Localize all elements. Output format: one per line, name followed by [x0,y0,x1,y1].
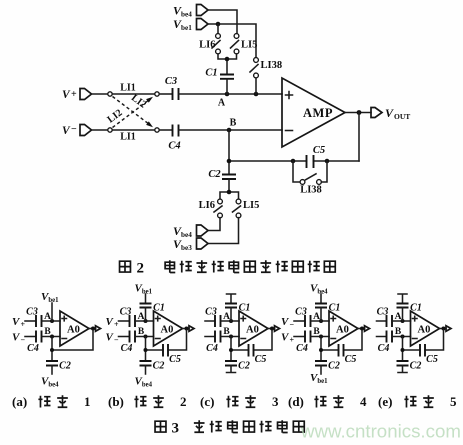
op-amp AMP [282,78,345,147]
svg-text:LI38: LI38 [300,185,322,196]
caption: fig 2 title [120,260,336,276]
wire LI6/LI5 merge to C1 [218,54,237,74]
junction feedback state4 [319,348,323,352]
node B [227,118,237,133]
input V+ state2 [106,316,130,329]
wire output state2 [183,328,190,330]
svg-text:C5: C5 [255,354,267,365]
capacitor C5 state5 [420,344,438,365]
svg-text:C5: C5 [169,354,181,365]
capacitor C5 state4 [339,344,357,365]
wire LI5 to Vbe3 buffer [209,218,239,244]
caption: state labels [12,394,457,409]
wire B down state1 [51,337,53,362]
capacitor C3 state3 [205,307,220,328]
svg-text:B: B [313,327,320,337]
svg-text:C2: C2 [208,169,221,180]
capacitor C1 state5 [397,303,422,314]
wire top to A state1 [51,303,53,321]
svg-text:AMP: AMP [303,106,333,120]
wire feedback vertical from output [358,113,360,162]
svg-text:A: A [138,312,145,322]
svg-text:C2: C2 [328,361,340,372]
svg-text:LI5: LI5 [243,200,259,211]
svg-text:LI6: LI6 [199,40,215,51]
svg-text:C3: C3 [120,307,132,318]
capacitor C4 state4 [296,331,310,355]
junction left of C5 [291,159,296,164]
capacitor C1 [205,68,234,79]
svg-text:OUT: OUT [394,112,410,121]
wire B row state1 [42,336,60,338]
wire C2 bottom state2 [145,366,147,375]
junction above C1 [225,57,230,62]
svg-text:LI38: LI38 [261,60,283,71]
capacitor C3 state5 [377,307,392,328]
switch LI5 (top) [231,34,258,54]
node A [218,92,229,109]
capacitor C1 state2 [140,303,165,314]
wire A row state2 [136,320,154,322]
capacitor C4 state2 [121,331,135,355]
svg-text:A0: A0 [246,325,259,336]
wire A row state3 [221,320,239,322]
svg-text:(b): (b) [108,394,124,409]
op-amp A0 state5 [411,311,440,346]
junction LI38 on A line [254,92,259,97]
node A state4 [313,312,323,323]
junction feedback state2 [144,348,148,352]
svg-text:C5: C5 [345,354,357,365]
svg-text:(e): (e) [378,394,392,409]
wire down to LI38 bottom switch [293,161,300,182]
wire feedback state2 [146,330,187,350]
wire AMP output [345,112,371,114]
node output state4 [360,327,364,331]
wire top state2 [145,294,147,304]
svg-text:A: A [313,312,320,322]
wire into C3 [159,93,172,95]
wire node B down to C2 [228,130,230,174]
node A state2 [138,312,148,323]
capacitor C3 state4 [295,307,310,328]
wire node B line [179,129,282,131]
wire C2 bottom state4 [320,366,322,375]
junction below C2 [227,190,232,195]
svg-text:B: B [138,327,145,337]
svg-text:(d): (d) [288,394,304,409]
node B state5 [395,327,405,339]
input V+ state4 [281,332,305,345]
svg-text:A0: A0 [161,325,174,336]
wire LI6 to Vbe4 buffer [209,218,221,231]
svg-text:V: V [385,106,394,120]
wire C1 to A state3 [230,308,232,322]
wire V+ buffer to switch [92,93,108,95]
svg-text:LI5: LI5 [241,40,257,51]
capacitor C4 state1 [27,331,41,355]
output terminal state5 [446,326,451,332]
wire C1 to A state4 [320,308,322,322]
node A state5 [395,312,405,323]
wire feedback horizontal right of C5 [314,160,360,162]
switch LI1 (top, closed path drawn as line) [112,83,155,95]
svg-text:www.cntronics.com: www.cntronics.com [300,421,461,442]
svg-text:A: A [218,98,226,109]
wire B down state4 [320,337,322,362]
wire output state4 [358,328,365,330]
input V- state1 [12,332,36,345]
capacitor C4 state3 [206,331,220,355]
switch LI2 (dashed cross, V+ to B path) [113,92,154,127]
wire output state5 [440,328,447,330]
node B state4 [313,327,323,339]
svg-text:A0: A0 [336,325,349,336]
wire feedback state3 [231,330,272,350]
wire top state4 [320,294,322,304]
svg-text:C3: C3 [295,307,307,318]
svg-text:B: B [223,327,230,337]
switch LI5 (bottom) [233,199,260,218]
svg-text:A: A [223,312,230,322]
wire output state3 [268,328,275,330]
wire into C4 [159,129,172,131]
capacitor C2 state5 [397,361,422,372]
svg-text:LI1: LI1 [120,132,136,143]
capacitor C2 state3 [225,361,250,372]
wire LI38 back up to feedback [321,161,327,182]
junction right of C5 [325,159,330,164]
svg-text:LI1: LI1 [120,83,136,94]
svg-text:4: 4 [360,394,367,409]
svg-text:C2: C2 [153,361,165,372]
wire B down state2 [145,337,147,362]
svg-text:C5: C5 [426,354,438,365]
svg-text:C3: C3 [377,307,389,318]
svg-text:C4: C4 [121,343,133,354]
wire A row state4 [311,320,329,322]
node A state3 [223,312,233,323]
svg-text:C3: C3 [26,307,38,318]
capacitor C1 state3 [225,303,250,314]
svg-text:(c): (c) [200,394,214,409]
svg-text:V: V [62,125,71,137]
capacitor C5 state3 [249,344,267,365]
wire C2 to bottom switches [220,179,239,199]
wire Vbe4 to LI5 [208,10,237,34]
junction feedback state3 [229,348,233,352]
wire A row state5 [393,320,411,322]
svg-text:2: 2 [137,261,145,277]
capacitor C5 state2 [163,344,181,365]
wire B down state3 [230,337,232,362]
wire A row state1 [42,320,60,322]
open terminal (top) state5 [398,294,407,304]
node output state2 [185,327,189,331]
capacitor C1 state4 [315,303,340,314]
switch LI1 (bottom) [112,130,155,143]
svg-text:C3: C3 [205,307,217,318]
buffer Vbe4 (bottom) [173,224,208,239]
buffer Vbe1 (top) [173,17,208,32]
svg-text:B: B [230,118,237,129]
capacitor C2 state1 [46,361,71,372]
output buffer Vout [371,106,410,121]
node B state1 [44,327,54,339]
svg-text:LI6: LI6 [199,200,215,211]
svg-text:C2: C2 [59,361,71,372]
node output state5 [442,327,446,331]
wire feedback state1 [52,330,93,350]
wire feedback state4 [321,330,362,350]
capacitor C2 state4 [315,361,340,372]
svg-text:B: B [44,327,51,337]
wire node A line [179,93,282,95]
wire input stubs state5 [377,321,387,337]
open terminal (top) state3 [227,294,236,304]
output terminal state2 [189,326,194,332]
svg-text:A: A [395,312,402,322]
capacitor C5 [307,145,326,168]
svg-text:C2: C2 [238,361,250,372]
wire C1 to node A [226,79,228,94]
output terminal state1 [96,326,101,332]
capacitor C3 state1 [26,307,41,328]
capacitor C2 state2 [140,361,165,372]
capacitor C2 [208,169,236,180]
input V- state2 [106,332,130,345]
junction feedback/B [227,159,232,164]
op-amp A0 state3 [239,311,268,346]
buffer Vbe4 (top) [173,4,208,19]
node B state3 [223,327,233,339]
svg-text:+: + [71,89,77,100]
op-amp A0 state1 [60,311,89,346]
node B state2 [138,327,148,339]
svg-text:2: 2 [180,394,187,409]
svg-text:A0: A0 [67,325,80,336]
svg-text:C1: C1 [153,303,165,314]
junction feedback state1 [50,348,54,352]
switch LI6 (bottom) [199,199,223,218]
svg-text:3: 3 [272,394,279,409]
svg-text:V: V [62,89,71,101]
wire V- buffer to switch [92,129,108,131]
node: LI1 right contact (top, into C3) [155,92,159,96]
svg-text:C3: C3 [165,76,177,87]
wire feedback state5 [403,330,444,350]
input V+ state1 [12,316,36,329]
buffer Vbe3 (bottom) [173,237,208,252]
op-amp A0 state2 [154,311,183,346]
svg-text:C4: C4 [378,343,390,354]
capacitor C4 state5 [378,331,392,355]
wire output state1 [89,328,96,330]
svg-text:B: B [395,327,402,337]
svg-text:C1: C1 [410,303,422,314]
svg-text:C1: C1 [239,303,251,314]
wire B row state3 [221,336,239,338]
wire B row state2 [136,336,154,338]
switch LI2 (dashed cross, V- to A path) [105,97,153,128]
input V- state4 [281,316,305,329]
svg-text:A0: A0 [418,325,431,336]
wire LI38 to node A [255,78,257,94]
wire input stubs state3 [205,321,215,337]
svg-text:C1: C1 [329,303,341,314]
svg-text:A: A [44,312,51,322]
wire B down state5 [402,337,404,362]
input buffer V+ [62,89,92,102]
node output junction [357,110,362,115]
node: LI1 left contact (bottom) [108,128,112,132]
node: LI1 left contact (top) [108,92,112,96]
capacitor C3 state2 [120,307,135,328]
svg-text:C1: C1 [205,68,217,79]
wire B row state4 [311,336,329,338]
switch LI38 (top) [250,58,282,78]
wire C2 bottom open state5 [398,366,407,373]
capacitor C4 [168,125,180,152]
junction on Vbe1 wire [216,22,221,27]
node: LI1 right contact (bottom, into C4) [155,128,159,132]
switch LI38 (bottom, parallel with C5) [300,174,322,196]
svg-text:−: − [71,124,77,135]
node output state1 [91,327,95,331]
switch LI6 (top) [199,34,220,54]
svg-text:C4: C4 [27,343,39,354]
svg-text:5: 5 [450,394,457,409]
wire Vbe1 to LI38 [208,24,256,58]
wire feedback horizontal left of C5 [229,160,307,162]
svg-text:C4: C4 [206,343,218,354]
svg-text:1: 1 [84,394,91,409]
wire C2 bottom open state3 [227,366,236,373]
svg-text:(a): (a) [12,394,27,409]
node A state1 [44,312,54,323]
wire C2 bottom state1 [51,366,53,375]
svg-text:C4: C4 [296,343,308,354]
svg-text:C2: C2 [410,361,422,372]
caption: fig 3 title [155,420,304,436]
wire C1 to A state5 [402,308,404,322]
junction feedback state5 [401,348,405,352]
output terminal state3 [275,326,280,332]
wire B row state5 [393,336,411,338]
wire C1 to A state2 [145,308,147,322]
op-amp A0 state4 [329,311,358,346]
svg-text:3: 3 [172,421,180,437]
svg-text:C5: C5 [313,145,325,156]
output terminal state4 [365,326,370,332]
node output state3 [270,327,274,331]
input buffer V- [62,124,92,137]
capacitor C3 [165,76,179,100]
wire junction to LI6 [217,24,219,34]
svg-text:C4: C4 [168,141,180,152]
